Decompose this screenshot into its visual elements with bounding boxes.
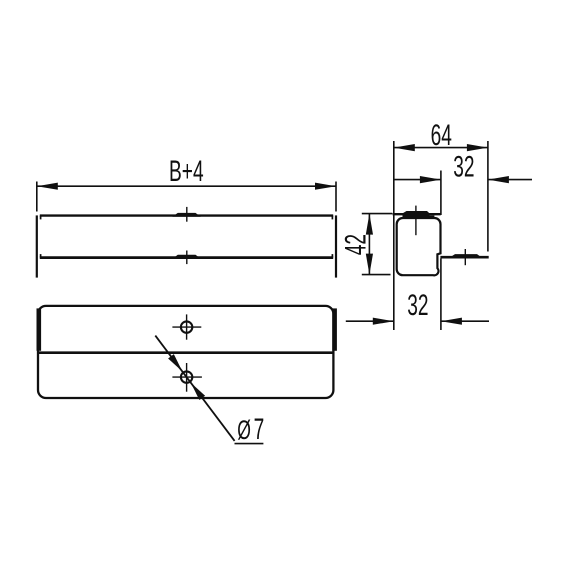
32 top arrow pointing left	[488, 176, 509, 183]
side view flange bump	[451, 254, 482, 257]
B+4 extension line right	[335, 182, 337, 212]
front view top center bump	[172, 213, 201, 217]
32 top dimension line right segment	[488, 179, 532, 181]
front view flange center bump	[172, 255, 201, 259]
front view left edge	[36, 215, 38, 277]
extension line at flange right end	[487, 141, 489, 252]
front view right edge	[335, 215, 337, 277]
42 extension line bottom	[362, 274, 391, 276]
32 top arrow pointing right	[420, 176, 441, 183]
42 arrow down	[366, 254, 373, 275]
extension line at profile right edge (lower part)	[440, 259, 442, 331]
plan view middle line	[38, 351, 333, 354]
42 extension line top	[362, 213, 393, 215]
leader arrow upper (points at hole edge)	[168, 354, 182, 371]
64 arrow right	[467, 144, 488, 151]
lower hole circle	[181, 371, 192, 382]
front view flange line left end tick	[40, 254, 42, 258]
leader arrow lower (points at hole edge)	[191, 383, 205, 400]
lower hole crosshair vertical	[186, 363, 188, 392]
32 bottom arrow pointing right	[373, 318, 394, 325]
front view flange line	[40, 256, 333, 259]
B+4 dimension line	[37, 185, 336, 187]
plan view left thick edge	[37, 308, 42, 350]
side view top bar centerline tick	[415, 206, 417, 236]
svg-text:42: 42	[341, 234, 373, 255]
front view top edge right end tick	[331, 216, 333, 220]
B+4 arrow right	[315, 183, 336, 190]
42 dimension line	[368, 214, 370, 275]
front view top edge left end tick	[40, 216, 42, 220]
plan view outline	[38, 306, 333, 398]
side view flange centerline tick	[464, 249, 466, 265]
side view top edge thickening	[403, 215, 435, 218]
64 arrow left	[394, 144, 415, 151]
svg-text:32: 32	[407, 290, 428, 322]
32 bottom dimension line right tail	[441, 320, 489, 322]
front view flange line right end tick	[331, 254, 333, 258]
front view top edge	[40, 214, 333, 216]
leader underline	[235, 443, 264, 445]
side view top cover bar	[393, 213, 441, 215]
upper hole circle	[181, 321, 192, 332]
extension line at profile right edge (upper part)	[440, 171, 442, 216]
B+4 arrow left	[37, 183, 58, 190]
32 bottom dimension line left tail	[346, 320, 394, 322]
plan view right thick edge	[332, 308, 337, 350]
svg-text:32: 32	[453, 152, 474, 184]
side view profile outline	[397, 218, 441, 275]
front view top centerline tick	[186, 207, 188, 222]
lower hole crosshair horizontal	[172, 376, 202, 378]
svg-text:B+4: B+4	[169, 156, 204, 188]
upper hole crosshair horizontal	[172, 326, 201, 328]
64 dimension line	[394, 147, 488, 149]
leader line	[155, 336, 234, 441]
32 bottom arrow pointing left	[441, 318, 462, 325]
32 top dimension line left segment	[394, 179, 441, 181]
side view top bar bump	[403, 211, 430, 219]
svg-text:Ø7: Ø7	[237, 414, 264, 446]
side view flange	[440, 256, 488, 259]
extension line at cover left edge	[393, 141, 395, 330]
upper hole crosshair vertical	[186, 314, 188, 339]
42 arrow up	[366, 214, 373, 235]
front view flange centerline tick	[186, 251, 188, 265]
svg-text:64: 64	[431, 120, 452, 152]
B+4 extension line left	[36, 182, 38, 212]
